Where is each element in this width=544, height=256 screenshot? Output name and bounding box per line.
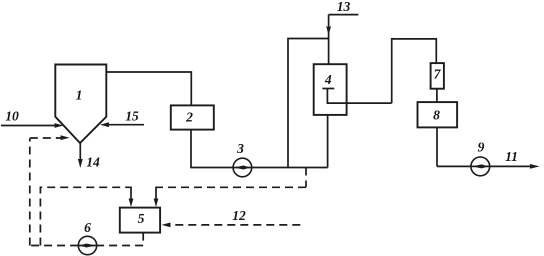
wire apparatus 4 bottom pipe xyxy=(327,115,329,168)
svg-text:11: 11 xyxy=(505,149,518,164)
pump 6 xyxy=(78,236,96,254)
wire branch into apparatus 5 top left xyxy=(130,187,132,201)
wire stream 10 line xyxy=(1,125,56,127)
arrowhead into apparatus 5 top left xyxy=(129,199,134,208)
wire dashed into vessel 1 apex xyxy=(30,137,62,139)
wire stream 13 drop into apparatus 4 xyxy=(328,15,330,65)
svg-text:2: 2 xyxy=(185,110,193,125)
svg-text:4: 4 xyxy=(324,72,332,87)
pump 3 xyxy=(233,158,252,177)
svg-text:12: 12 xyxy=(232,208,246,223)
arrowhead stream 12 xyxy=(162,223,171,228)
apparatus 7 xyxy=(431,63,444,89)
arrowhead dashed into vessel 1 apex xyxy=(61,135,70,140)
svg-text:14: 14 xyxy=(86,155,100,170)
level mark in apparatus 4 xyxy=(322,88,334,90)
dip tube in apparatus 4 xyxy=(327,89,391,104)
svg-text:9: 9 xyxy=(478,140,485,155)
wire branch into apparatus 5 top right xyxy=(155,187,157,201)
wire apparatus 8 down to product line xyxy=(436,127,438,166)
wire dashed recycle to apparatus 5 right branch xyxy=(156,186,306,188)
apparatus 2 xyxy=(171,105,214,129)
wire dashed stream 12 xyxy=(168,224,300,226)
svg-text:1: 1 xyxy=(76,87,83,102)
wire vessel 1 to apparatus 2 xyxy=(106,72,191,105)
wire product line 11 xyxy=(437,165,531,167)
svg-text:8: 8 xyxy=(433,108,440,123)
wire dashed drop under apparatus 4 xyxy=(305,168,307,188)
svg-text:13: 13 xyxy=(337,0,351,14)
svg-text:10: 10 xyxy=(5,109,19,124)
wire stream 15 line xyxy=(107,124,144,126)
wire apparatus 2 down xyxy=(190,130,192,168)
svg-text:7: 7 xyxy=(434,67,442,82)
arrowhead stream 15 xyxy=(100,122,109,127)
wire stream 14 xyxy=(79,143,81,161)
svg-text:6: 6 xyxy=(84,220,91,235)
arrowhead stream 13 xyxy=(326,27,331,36)
arrowhead into apparatus 5 top right xyxy=(154,199,159,208)
arrowhead stream 10 xyxy=(55,123,64,128)
wire stream 13 underline xyxy=(329,14,359,16)
wire dashed left branch to apparatus 5 xyxy=(40,187,131,245)
svg-text:5: 5 xyxy=(138,211,145,226)
wire riser to apparatus 7 xyxy=(392,39,437,103)
wire dashed left recycle riser xyxy=(29,138,31,245)
arrowhead stream 11 xyxy=(530,164,540,169)
apparatus 4 xyxy=(314,64,347,115)
wire left loop up and over xyxy=(288,39,329,168)
wire main line to pump 3 and under apparatus 4 xyxy=(190,167,328,169)
arrowhead stream 14 xyxy=(78,159,83,168)
pump 9 xyxy=(471,157,490,176)
svg-text:15: 15 xyxy=(125,109,139,124)
apparatus 5 xyxy=(120,208,160,233)
apparatus 8 xyxy=(418,102,458,127)
wire dashed apparatus 5 bottom out xyxy=(30,233,143,246)
svg-text:3: 3 xyxy=(236,141,244,156)
vessel 1 (hopper) xyxy=(55,65,106,144)
wire apparatus 7 to apparatus 8 xyxy=(436,89,438,102)
